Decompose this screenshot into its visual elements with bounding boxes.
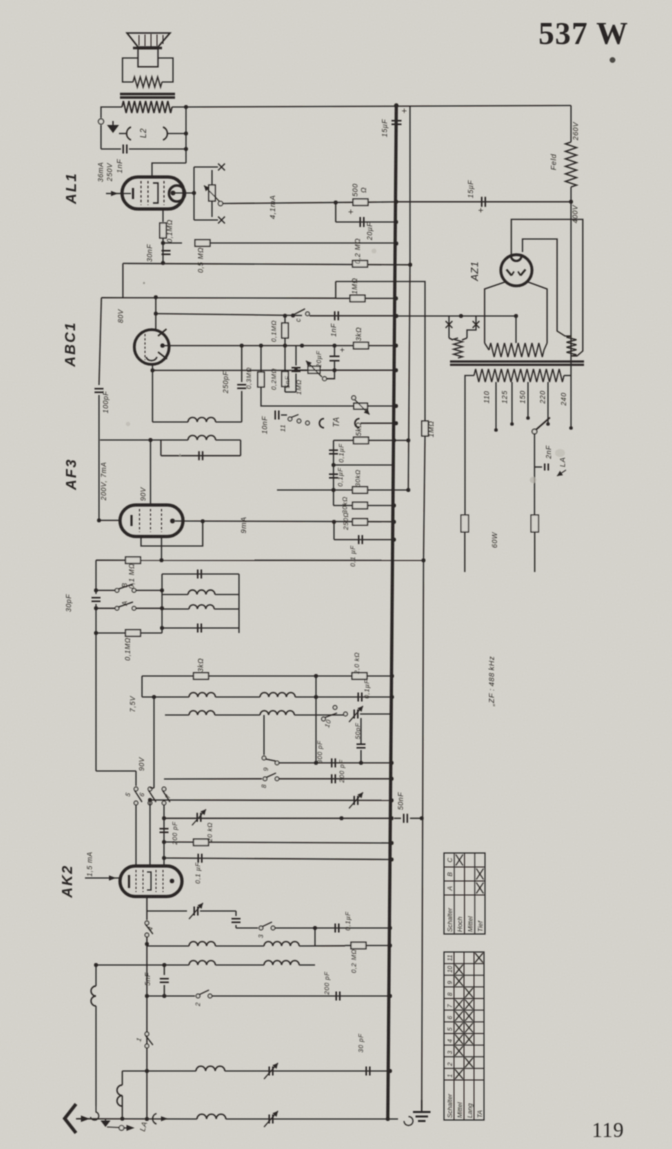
- capacitor 30nF: [162, 250, 171, 252]
- pot 1M b body: [354, 403, 368, 409]
- potentiometer 1M body: [308, 366, 320, 373]
- speaker cone: [127, 33, 170, 47]
- node junction: [546, 422, 550, 426]
- node junction: [359, 761, 363, 765]
- capacitor 1nF: [122, 145, 124, 154]
- wire: [153, 369, 308, 371]
- capacitor 20uF b: [330, 355, 340, 357]
- node junction: [394, 103, 399, 108]
- node junction: [394, 242, 398, 246]
- inductor osc coil b: [264, 942, 299, 946]
- potentiometer 1M terminal: [323, 377, 327, 381]
- node junction: [390, 841, 394, 845]
- TA jack a: [306, 421, 310, 425]
- wire: [534, 434, 536, 515]
- wire 3k rail: [142, 675, 352, 677]
- resistor 0.2MOhm b: [282, 372, 289, 387]
- wire mains right: [534, 532, 536, 572]
- node junction: [162, 856, 166, 860]
- wire: [214, 608, 239, 610]
- node junction: [145, 1117, 149, 1121]
- node junction: [386, 1117, 390, 1121]
- node junction: [294, 368, 298, 372]
- wire: [240, 440, 242, 456]
- wire: [334, 539, 394, 541]
- tube AF3 envelope: [120, 505, 183, 537]
- switch 8 contact b: [275, 777, 279, 781]
- wire: [368, 201, 396, 203]
- potentiometer 1M arrow: [306, 361, 322, 377]
- node junction: [394, 368, 398, 372]
- tube AZ1 anode left: [507, 270, 512, 276]
- LA arrow: [557, 470, 566, 476]
- pot wiper terminal: [218, 201, 222, 205]
- terminal circle b: [119, 1126, 124, 1131]
- node junction: [154, 295, 158, 299]
- wire: [241, 391, 243, 422]
- node junction: [145, 1069, 149, 1073]
- resistor output transformer primary: [122, 101, 172, 113]
- wire: [544, 343, 547, 350]
- wire: [136, 607, 162, 609]
- terminal circle: [98, 119, 103, 124]
- switch A contact a: [115, 606, 119, 610]
- node junction: [291, 314, 295, 318]
- wire: [167, 133, 186, 135]
- switch 3 contact a: [259, 926, 263, 930]
- capacitor 200pF d: [335, 992, 337, 1001]
- wire osc tank: [147, 910, 187, 912]
- node junction: [333, 344, 337, 348]
- resistor pot 10kOhm: [209, 185, 216, 201]
- wire: [333, 522, 335, 540]
- resistor 0.2MOhm c: [351, 942, 366, 949]
- node junction: [152, 695, 156, 699]
- capacitor 0.1uF e: [197, 854, 199, 863]
- node junction: [160, 558, 164, 562]
- current arrow 1.5mA: [109, 875, 116, 880]
- wire: [260, 346, 262, 372]
- wire: [284, 346, 286, 392]
- node junction: [300, 344, 304, 348]
- ink speck c: [530, 477, 536, 483]
- node junction: [332, 488, 336, 492]
- wire coil rail 2: [165, 714, 189, 716]
- node junction: [149, 438, 153, 442]
- resistor 0.1MOhm: [160, 223, 167, 238]
- node junction: [334, 201, 338, 205]
- trimmer arrow trimmer e: [264, 1063, 278, 1079]
- wire: [216, 439, 241, 441]
- capacitor 0.1uF b: [329, 473, 338, 475]
- switch 8 contact a: [263, 777, 267, 781]
- wire TA to bus: [361, 422, 397, 424]
- wire: [121, 1096, 123, 1119]
- tube AZ1 filament notch: [511, 256, 522, 261]
- node junction: [313, 926, 317, 930]
- mains transformer core: [450, 360, 584, 362]
- wire: [281, 414, 287, 416]
- tube AL1 cathode: [132, 188, 134, 199]
- node junction: [390, 761, 394, 765]
- node junction: [333, 368, 337, 372]
- tube AZ1 envelope: [501, 255, 532, 286]
- wire: [122, 263, 124, 297]
- wire: [238, 574, 240, 633]
- tube AL1 screen: [147, 181, 149, 205]
- node junction: [392, 538, 396, 542]
- inductor band coil 1b: [260, 693, 295, 697]
- wire: [212, 995, 390, 997]
- wire ant rail: [122, 1070, 196, 1072]
- wire: [215, 696, 260, 698]
- tube ABC1 cathode: [146, 357, 157, 361]
- capacitor 1nF b: [334, 311, 336, 320]
- node junction: [160, 588, 164, 592]
- node junction: [514, 314, 518, 318]
- trimmer capacitor trimmer f: [268, 1115, 270, 1124]
- fuse left: [461, 515, 469, 532]
- capacitor 50nF: [403, 814, 405, 823]
- wire tap 220: [547, 382, 549, 424]
- wire: [336, 282, 425, 422]
- capacitor osc padder: [232, 918, 241, 920]
- node junction: [314, 674, 318, 678]
- table band switch: [444, 952, 484, 1120]
- wire cath rail: [296, 369, 396, 371]
- mains transformer core: [450, 364, 584, 366]
- wire curl: [91, 1106, 99, 1120]
- node junction: [162, 840, 166, 844]
- wire AF3 cathode lead: [99, 519, 120, 521]
- capacitor 200pF bcap: [331, 774, 333, 783]
- switch switch 1: [145, 1032, 149, 1036]
- resistor 30kOhm b: [353, 502, 368, 509]
- TA jack arc a: [319, 419, 324, 428]
- wire: [129, 148, 186, 150]
- wire to 0.5M: [163, 242, 182, 244]
- node junction: [161, 261, 165, 265]
- wire tap 110: [495, 382, 497, 430]
- wire: [149, 800, 151, 805]
- pot 1M b terminal: [352, 396, 356, 400]
- fuse right: [531, 515, 539, 532]
- inductor ant coil c: [196, 1066, 225, 1071]
- node junction: [162, 994, 166, 998]
- node junction: [314, 761, 318, 765]
- capacitor 30pF b: [365, 1067, 367, 1076]
- wire: [314, 928, 316, 946]
- tube AK2 g4: [162, 870, 164, 892]
- node junction: [390, 674, 394, 678]
- wire: [295, 374, 297, 393]
- wire: [210, 242, 396, 244]
- wire: [95, 965, 97, 986]
- wire: [163, 965, 165, 975]
- capacitor 300pF: [331, 758, 333, 767]
- wire AF3 anode rail: [175, 520, 394, 523]
- wire: [485, 343, 489, 350]
- wire: [200, 910, 236, 912]
- wire: [236, 927, 258, 929]
- node junction: [569, 200, 573, 204]
- wire: [149, 805, 151, 866]
- node junction: [408, 263, 412, 267]
- wire AVC rail: [101, 297, 335, 300]
- wire osc rail: [164, 817, 392, 819]
- potentiometer arrow: [204, 186, 220, 202]
- node junction: [394, 421, 398, 425]
- wire to 500 Ohm: [223, 202, 354, 203]
- switch B contact a: [115, 589, 119, 593]
- capacitor IF2 cap a: [197, 570, 199, 579]
- pot 1M b arrow: [355, 400, 370, 415]
- node junction: [184, 132, 188, 136]
- wire: [162, 573, 239, 575]
- switch B lever: [119, 584, 134, 589]
- inductor L2: [127, 127, 131, 140]
- wire: [226, 1118, 388, 1120]
- connector hook: [153, 1114, 157, 1125]
- wire 260V rail: [396, 201, 571, 203]
- wire: [141, 521, 203, 546]
- tube AF3 cathode: [130, 515, 132, 526]
- tube ABC1 envelope: [134, 330, 169, 365]
- ink speck f: [126, 422, 130, 426]
- node x sec b: [473, 321, 480, 328]
- node junction: [390, 816, 394, 820]
- antenna arrow: [78, 1116, 88, 1121]
- wire AZ1 anode 1: [511, 219, 583, 356]
- wire grid return: [99, 298, 101, 385]
- switch earth lever: [107, 1126, 119, 1129]
- node junction: [94, 631, 98, 635]
- wire: [315, 676, 317, 697]
- voltage selector lever: [535, 418, 551, 432]
- node x sec a: [446, 321, 453, 328]
- wire: [146, 896, 148, 920]
- node junction: [314, 695, 318, 699]
- node junction: [184, 105, 188, 109]
- capacitor 5nF b: [160, 978, 169, 980]
- wire screen rail: [96, 559, 424, 561]
- node junction: [420, 816, 424, 820]
- tube ABC1 diode plate: [158, 329, 167, 336]
- capacitor 0.1uF a: [329, 449, 338, 451]
- node junction: [422, 558, 426, 562]
- switch 2 contact a: [196, 994, 200, 998]
- tube AL1 anode cap: [169, 186, 185, 202]
- wire: [147, 995, 195, 997]
- wire: [185, 107, 187, 163]
- wire: [146, 937, 148, 1119]
- node junction: [332, 520, 336, 524]
- wire: [388, 1118, 398, 1120]
- ink speck d: [179, 454, 181, 456]
- node junction: [494, 428, 498, 432]
- tube AK2 anode dot: [170, 879, 175, 884]
- switch 9 lever: [266, 759, 276, 761]
- antenna: [65, 1104, 76, 1133]
- wire heater left: [485, 282, 505, 343]
- node junction: [94, 606, 98, 610]
- node junction: [340, 816, 344, 820]
- tube AL1 anode: [153, 183, 158, 203]
- wire: [161, 537, 163, 561]
- wire: [294, 714, 343, 716]
- resistor 3kOhm b: [194, 673, 209, 680]
- tube ABC1 anode dot: [160, 343, 164, 347]
- node junction: [569, 426, 573, 430]
- trimmer capacitor trimmer e: [268, 1067, 270, 1076]
- tube AF3 grid2: [150, 509, 152, 532]
- wire: [448, 316, 450, 338]
- wire grid lead: [152, 163, 186, 177]
- tube AK2 g3: [155, 870, 157, 892]
- resistor 0.2MOhm a: [353, 261, 368, 268]
- switch A lever: [119, 602, 134, 607]
- wire: [100, 125, 102, 149]
- wire B+ IF: [153, 369, 156, 371]
- resistor 500 Ohm: [353, 199, 368, 206]
- capacitor 0.1uF d: [357, 693, 359, 702]
- wire: [216, 421, 242, 423]
- tube AL1 grid3: [163, 181, 165, 205]
- trimmer arrow trimmer d: [189, 903, 203, 919]
- wire: [160, 440, 162, 456]
- resistor Feld field coil: [566, 142, 577, 187]
- wire: [215, 594, 239, 596]
- node junction: [388, 944, 392, 948]
- switch 2 contact b: [208, 994, 212, 998]
- node junction: [388, 926, 392, 930]
- capacitor 5nF a: [292, 367, 301, 369]
- resistor mains primary winding: [474, 369, 564, 382]
- switch 11 contact a: [288, 417, 292, 421]
- node junction: [332, 463, 336, 467]
- inductor ant coil d: [197, 1114, 226, 1119]
- inductor IF1 secondary: [188, 435, 216, 440]
- wire: [96, 607, 115, 609]
- wire: [96, 589, 115, 591]
- inductor IF2 coil b: [189, 605, 214, 609]
- node junction: [283, 314, 287, 318]
- resistor 2kOhm: [352, 673, 367, 680]
- wire: [315, 697, 317, 763]
- wire: [299, 945, 345, 947]
- wire: [141, 676, 143, 697]
- wire: [225, 1070, 390, 1072]
- node junction: [160, 626, 164, 630]
- trimmer capacitor trimmer b: [353, 796, 355, 805]
- wire: [263, 715, 265, 755]
- wire: [335, 282, 337, 299]
- wire: [394, 817, 401, 819]
- inductor IF1 primary: [188, 417, 216, 422]
- wire: [161, 574, 163, 633]
- wire: [194, 166, 218, 168]
- inductor ant coil a: [189, 961, 215, 965]
- wire: [333, 490, 335, 506]
- switch 11 contact b: [297, 419, 301, 423]
- wire: [241, 346, 243, 382]
- switch switch 7: [162, 787, 166, 791]
- wire 30k rail: [277, 489, 408, 491]
- wire: [335, 203, 337, 223]
- node junction: [162, 816, 166, 820]
- node x bottom: [218, 217, 225, 224]
- wire: [211, 201, 213, 217]
- wire: [215, 714, 260, 716]
- capacitor 0.1uF c: [358, 535, 360, 544]
- wire speaker loop: [158, 58, 173, 82]
- resistor 250 Ohm: [353, 519, 368, 526]
- tube AZ1 anode right: [521, 270, 526, 276]
- wire top rail: [172, 106, 571, 108]
- inductor band coil 2a: [189, 711, 215, 715]
- node junction: [392, 504, 396, 508]
- wire ABC1 anode rail: [165, 345, 397, 347]
- wire: [564, 375, 571, 377]
- inductor antenna coil a: [91, 986, 96, 1006]
- wire center tap: [515, 316, 517, 343]
- node junction: [201, 519, 205, 523]
- trimmer arrow trimmer a: [349, 706, 363, 722]
- node junction: [390, 695, 394, 699]
- switch 9 contact a: [262, 756, 266, 760]
- switch 3 contact b: [271, 926, 275, 930]
- wire B+ to bus: [396, 315, 516, 317]
- resistor 1MOhm b: [422, 421, 429, 436]
- wire 0.1uF rail: [164, 858, 392, 860]
- node junction: [394, 404, 398, 408]
- wire: [95, 604, 97, 771]
- trimmer capacitor trimmer c: [196, 813, 198, 822]
- capacitor IF1 tuning cap: [198, 451, 200, 460]
- wire coil rail B: [96, 964, 189, 966]
- wire: [310, 315, 397, 317]
- wire: [334, 464, 395, 466]
- capacitor 20uF electrolytic: [359, 217, 361, 227]
- capacitor 10nF: [274, 411, 276, 420]
- node junction: [394, 314, 398, 318]
- inductor band coil 1a: [189, 693, 215, 697]
- wire: [284, 316, 286, 346]
- capacitor 30pF a: [92, 597, 101, 599]
- wire: [260, 387, 262, 403]
- switch A contact b: [132, 606, 136, 610]
- node junction: [94, 588, 98, 592]
- wire: [295, 696, 392, 698]
- switch 2 lever: [200, 990, 210, 995]
- tube ABC1 grid: [144, 334, 146, 360]
- switch 9 contact b: [275, 761, 279, 765]
- node junction: [283, 344, 287, 348]
- table tone switch: [444, 853, 485, 934]
- resistor 0.1MOhm c: [126, 557, 141, 564]
- wire: [462, 338, 467, 340]
- wire grid rail: [123, 263, 410, 264]
- node junction: [192, 191, 196, 195]
- tube ABC1 diode plate2: [158, 352, 167, 359]
- resistor speaker hum coil: [133, 77, 162, 87]
- wire speaker loop: [123, 58, 139, 82]
- wire: [535, 466, 543, 468]
- wire: [211, 170, 213, 185]
- wire heater right: [528, 282, 547, 343]
- wire 5k rail: [334, 439, 409, 441]
- wire: [193, 167, 195, 220]
